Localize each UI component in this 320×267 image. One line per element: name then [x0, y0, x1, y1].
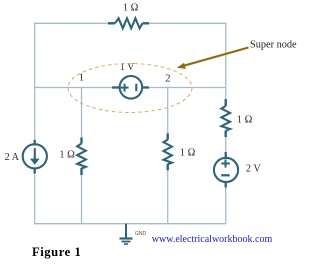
resistor R3 middle vertical 1ohm [164, 133, 172, 170]
svg-text:1 Ω: 1 Ω [59, 149, 75, 160]
arrow inside current source [34, 148, 36, 160]
supernode pointer arrow [177, 48, 249, 69]
ground symbol [120, 224, 133, 244]
wire right vertical upper [225, 23, 227, 100]
wire middle horizontal left part [35, 87, 113, 89]
svg-text:2: 2 [165, 73, 170, 84]
wire left vertical [34, 23, 36, 141]
resistor R2 left vertical 1ohm [77, 138, 86, 176]
wire bottom horizontal [34, 223, 226, 225]
svg-text:2 V: 2 V [246, 164, 261, 175]
label website [152, 234, 272, 245]
svg-text:1 Ω: 1 Ω [237, 115, 253, 126]
svg-text:Super node: Super node [250, 39, 297, 50]
wire top horizontal left [35, 22, 109, 24]
plus sign of V2 [221, 163, 230, 165]
wire branch node1 vertical [81, 88, 83, 140]
svg-text:1 Ω: 1 Ω [123, 2, 139, 13]
wire left vertical lower [34, 172, 36, 224]
voltage source V1 1V horizontal [112, 76, 149, 99]
svg-text:1: 1 [79, 73, 84, 84]
wire branch node2 vertical lower [167, 170, 169, 224]
resistor R4 right vertical 1ohm [221, 99, 230, 137]
resistor R1 top horizontal 1ohm [108, 18, 149, 28]
plus sign of V1 [121, 87, 129, 89]
supernode dashed ellipse [68, 64, 192, 113]
wire middle horizontal right part [148, 87, 226, 89]
wire branch node1 vertical lower [81, 174, 83, 224]
label Figure 1 [32, 245, 81, 260]
svg-text:1 Ω: 1 Ω [180, 147, 196, 158]
svg-text:2 A: 2 A [5, 152, 20, 163]
minus sign of V2 [221, 174, 230, 176]
wire right vertical between resistor and source [225, 136, 227, 153]
wire branch node2 vertical [167, 88, 169, 135]
svg-text:GND: GND [135, 231, 147, 237]
voltage source V2 2V vertical [214, 152, 238, 188]
wire top horizontal right [149, 22, 226, 24]
wire right vertical lower [225, 186, 227, 224]
minus sign of V1 (rotated vertical bar) [135, 84, 137, 91]
current source I1 2A [23, 140, 47, 174]
